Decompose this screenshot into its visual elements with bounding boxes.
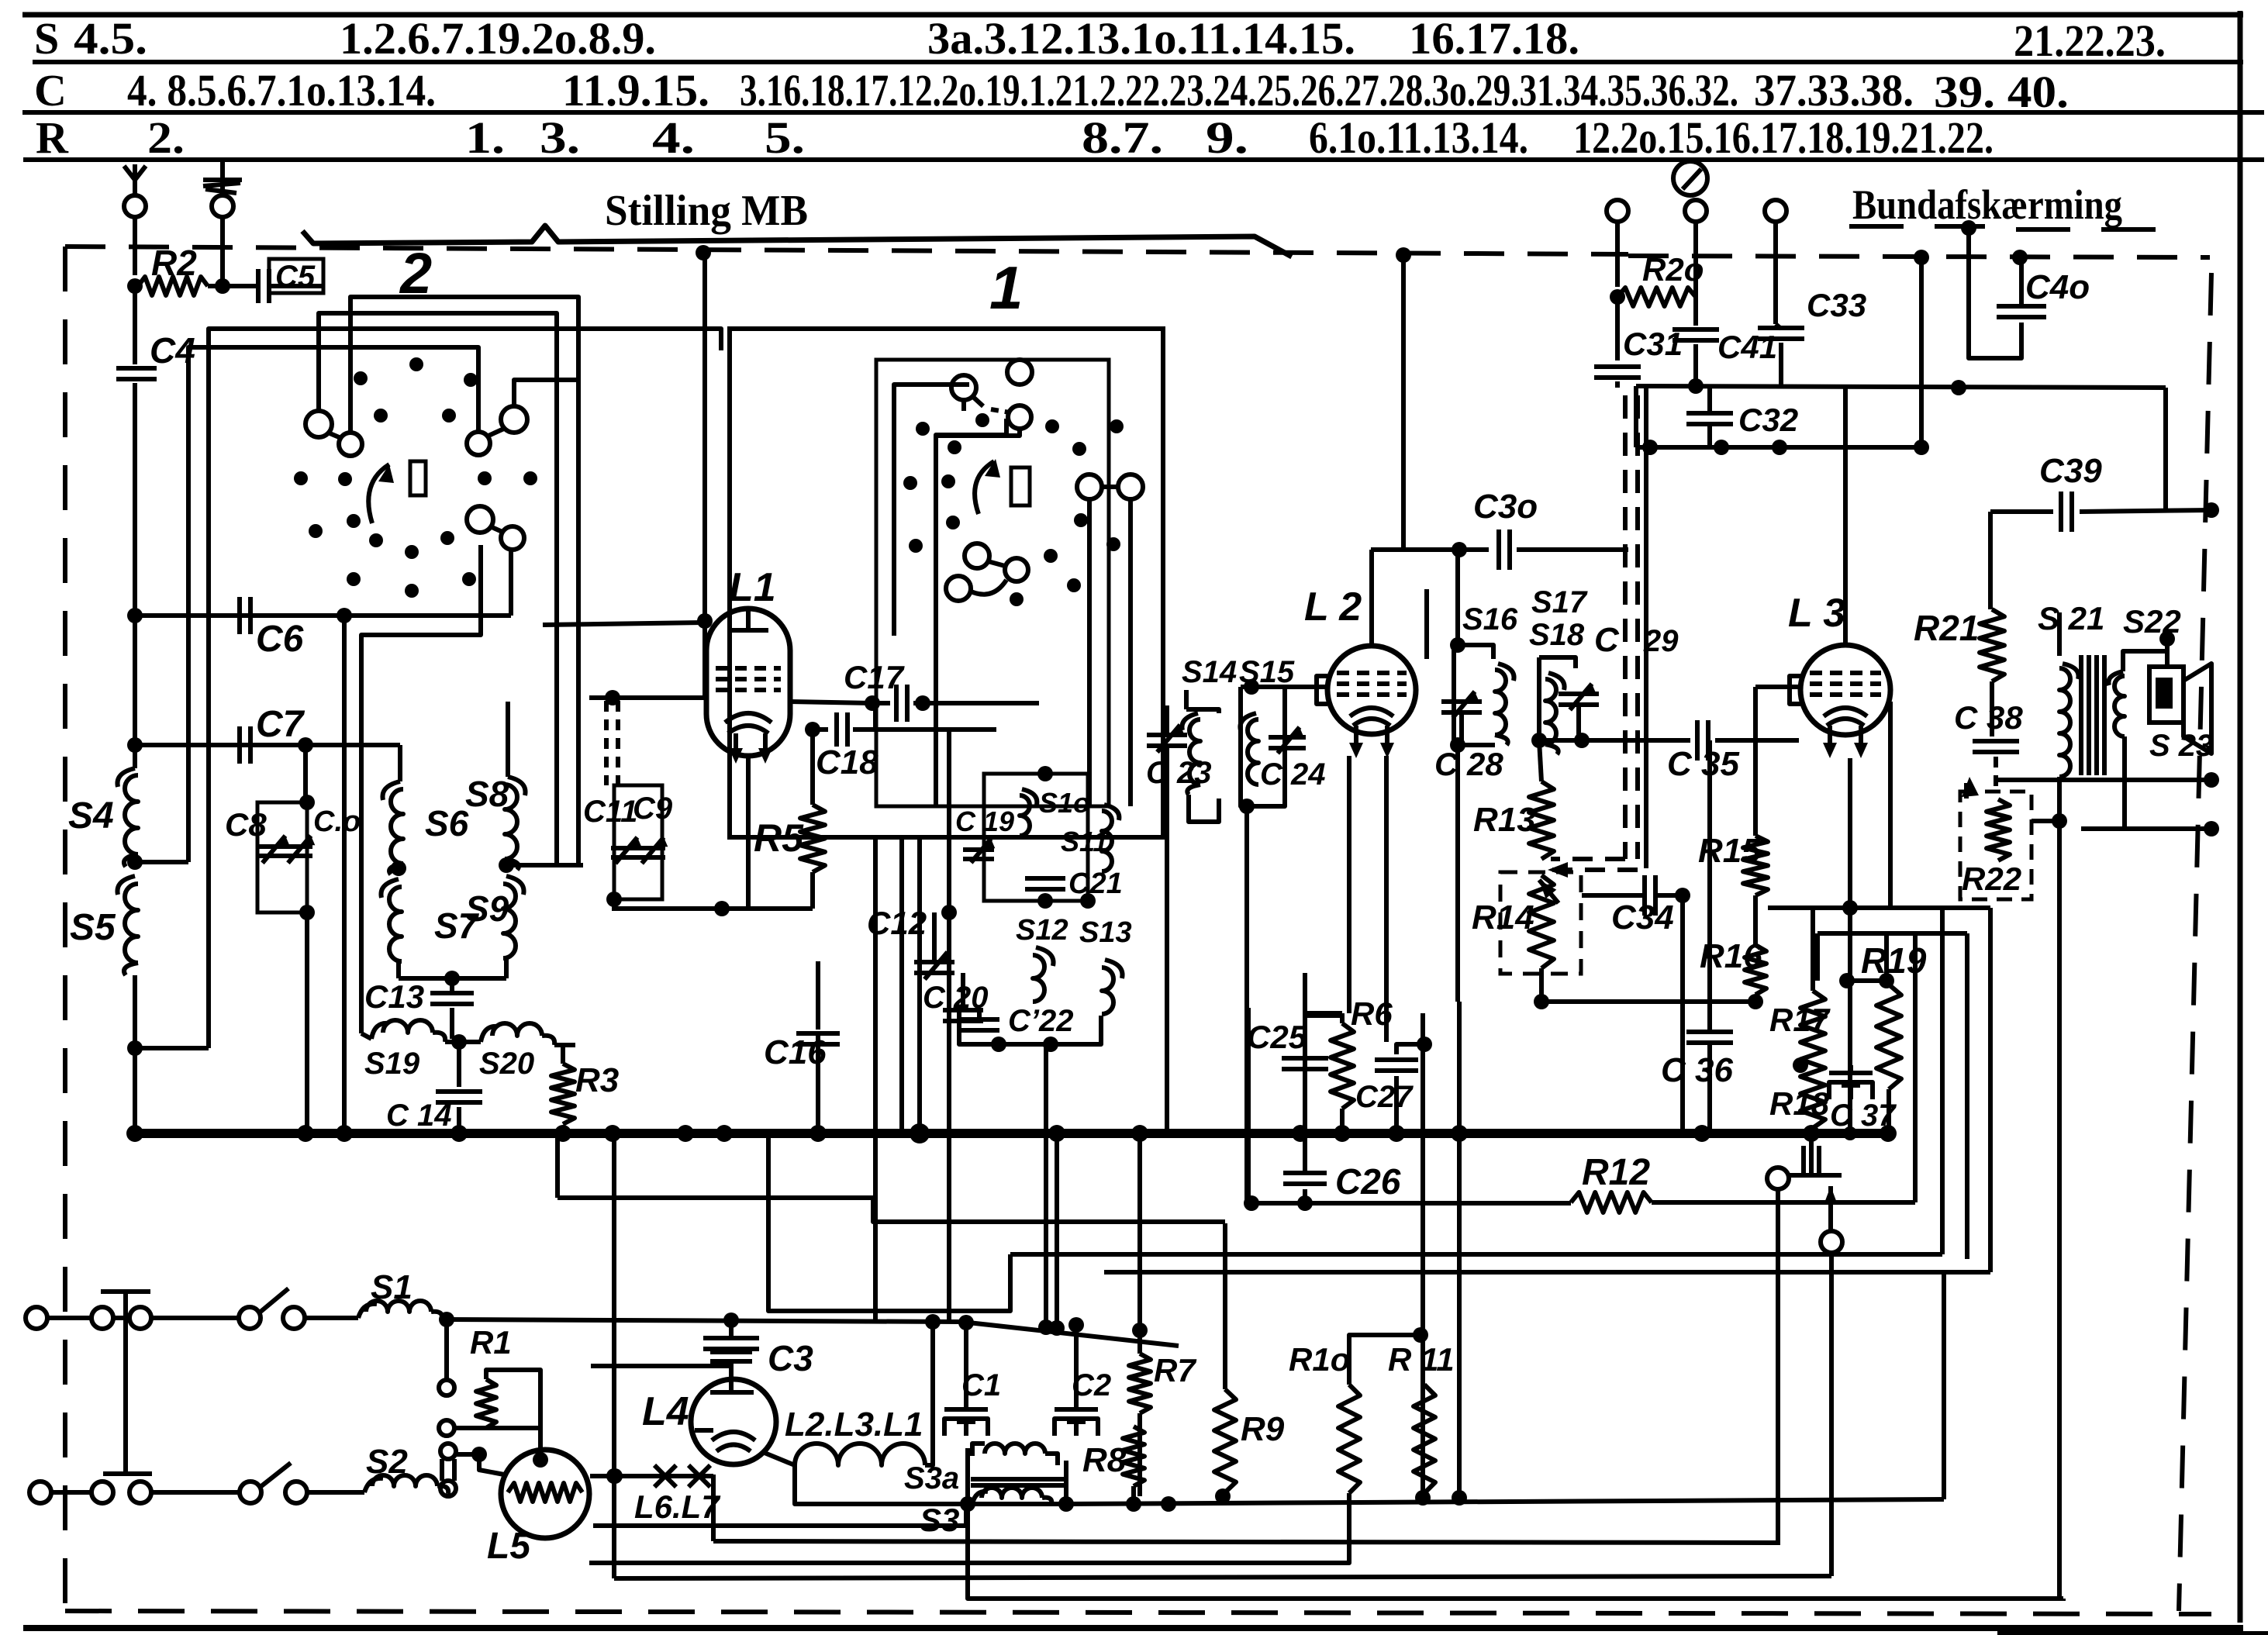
svg-text:2.: 2. xyxy=(147,112,185,163)
svg-text:21.22.23.: 21.22.23. xyxy=(2014,16,2166,66)
svg-text:R17: R17 xyxy=(1769,1002,1831,1038)
svg-text:R8: R8 xyxy=(1082,1441,1127,1479)
svg-text:R3: R3 xyxy=(575,1061,619,1099)
svg-text:L 3: L 3 xyxy=(1788,591,1845,636)
svg-text:R7: R7 xyxy=(1154,1352,1196,1388)
svg-text:C3o: C3o xyxy=(1473,488,1538,526)
svg-text:R 11: R 11 xyxy=(1388,1341,1455,1378)
svg-text:R12: R12 xyxy=(1582,1152,1650,1193)
svg-text:C 24: C 24 xyxy=(1260,757,1326,792)
svg-text:2: 2 xyxy=(399,241,432,305)
svg-text:S5: S5 xyxy=(70,907,116,948)
svg-text:5.: 5. xyxy=(765,112,805,163)
svg-text:R14: R14 xyxy=(1472,899,1534,937)
svg-text:C8: C8 xyxy=(225,806,267,843)
svg-text:R: R xyxy=(36,112,69,163)
svg-text:R9: R9 xyxy=(1241,1410,1285,1448)
svg-text:C 23: C 23 xyxy=(1146,756,1212,790)
svg-text:R18: R18 xyxy=(1769,1085,1830,1122)
svg-text:39. 40.: 39. 40. xyxy=(1934,67,2069,117)
svg-text:R6: R6 xyxy=(1351,995,1393,1032)
svg-text:C 14: C 14 xyxy=(386,1099,452,1133)
svg-text:R2o: R2o xyxy=(1642,251,1704,288)
svg-text:C5: C5 xyxy=(275,260,316,294)
svg-text:S: S xyxy=(34,13,59,64)
svg-text:4.5.: 4.5. xyxy=(74,13,147,64)
svg-text:L 2: L 2 xyxy=(1304,585,1362,630)
svg-text:C.o: C.o xyxy=(313,805,361,838)
svg-text:3a.3.12.13.1o.11.14.15.: 3a.3.12.13.1o.11.14.15. xyxy=(927,13,1355,64)
svg-text:L6.L7: L6.L7 xyxy=(634,1488,720,1525)
svg-text:3.: 3. xyxy=(540,112,580,163)
svg-text:R5: R5 xyxy=(754,816,804,860)
svg-text:S1o: S1o xyxy=(1039,787,1090,819)
svg-text:6.1o.11.13.14.: 6.1o.11.13.14. xyxy=(1309,112,1528,163)
svg-text:S16: S16 xyxy=(1462,602,1518,636)
svg-text:C 36: C 36 xyxy=(1661,1051,1733,1089)
svg-text:C 28: C 28 xyxy=(1434,746,1503,782)
svg-text:C41: C41 xyxy=(1717,329,1777,365)
svg-text:S 23: S 23 xyxy=(2149,729,2213,763)
svg-text:S4: S4 xyxy=(68,795,114,836)
svg-text:8.7.: 8.7. xyxy=(1082,112,1163,163)
svg-text:S17: S17 xyxy=(1531,585,1588,619)
svg-text:C17: C17 xyxy=(844,659,905,695)
svg-text:C: C xyxy=(34,65,67,116)
svg-text:C34: C34 xyxy=(1611,899,1674,937)
svg-text:11.9.15.: 11.9.15. xyxy=(562,65,709,116)
svg-text:Bundafskærming: Bundafskærming xyxy=(1852,181,2122,228)
svg-text:37.33.38.: 37.33.38. xyxy=(1754,65,1914,116)
svg-text:S13: S13 xyxy=(1079,916,1132,949)
svg-text:12.2o.15.16.17.18.19.21.22.: 12.2o.15.16.17.18.19.21.22. xyxy=(1573,112,1994,163)
svg-text:R1o: R1o xyxy=(1289,1341,1350,1378)
svg-text:C32: C32 xyxy=(1738,402,1798,438)
svg-text:16.17.18.: 16.17.18. xyxy=(1409,13,1579,64)
svg-text:S19: S19 xyxy=(364,1047,420,1081)
svg-text:C18: C18 xyxy=(816,743,879,781)
svg-text:C3: C3 xyxy=(768,1338,813,1378)
svg-text:C13: C13 xyxy=(364,978,424,1015)
svg-text:C33: C33 xyxy=(1807,287,1866,323)
svg-text:C39: C39 xyxy=(2039,452,2102,490)
svg-text:C7: C7 xyxy=(256,704,306,745)
svg-text:C9: C9 xyxy=(633,792,673,826)
svg-text:R21: R21 xyxy=(1914,608,1979,648)
svg-text:L1: L1 xyxy=(729,565,776,610)
svg-text:C’22: C’22 xyxy=(1008,1004,1074,1038)
svg-text:C4o: C4o xyxy=(2025,268,2090,306)
svg-text:C 37: C 37 xyxy=(1830,1099,1897,1133)
svg-text:C27: C27 xyxy=(1355,1080,1414,1114)
svg-text:S 21: S 21 xyxy=(2038,600,2104,636)
svg-text:C 38: C 38 xyxy=(1954,699,2023,736)
svg-text:3.16.18.17.12.2o.19.1.21.2.22.: 3.16.18.17.12.2o.19.1.21.2.22.23.24.25.2… xyxy=(740,65,1738,116)
svg-text:1.2.6.7.19.2o.8.9.: 1.2.6.7.19.2o.8.9. xyxy=(340,13,656,64)
svg-text:C26: C26 xyxy=(1335,1161,1401,1202)
svg-text:C: C xyxy=(1594,621,1620,659)
svg-text:C11: C11 xyxy=(583,795,637,829)
svg-text:9.: 9. xyxy=(1206,112,1248,163)
svg-text:S18: S18 xyxy=(1529,618,1585,652)
svg-text:S20: S20 xyxy=(479,1047,534,1081)
svg-text:S12: S12 xyxy=(1016,914,1068,947)
svg-text:C16: C16 xyxy=(764,1033,827,1071)
svg-text:L4: L4 xyxy=(642,1389,689,1434)
svg-text:R1: R1 xyxy=(470,1324,512,1361)
svg-text:C 35: C 35 xyxy=(1667,745,1739,783)
svg-text:C6: C6 xyxy=(256,619,304,660)
svg-text:R22: R22 xyxy=(1962,861,2021,897)
svg-text:4. 8.5.6.7.1o.13.14.: 4. 8.5.6.7.1o.13.14. xyxy=(127,65,436,116)
svg-text:S14: S14 xyxy=(1182,655,1237,689)
svg-text:S6: S6 xyxy=(425,803,469,843)
svg-text:L2.L3.L1: L2.L3.L1 xyxy=(785,1406,923,1444)
svg-text:S8: S8 xyxy=(465,774,509,814)
svg-text:S3a: S3a xyxy=(904,1461,959,1495)
svg-text:C12: C12 xyxy=(867,905,927,941)
svg-text:C 19: C 19 xyxy=(955,805,1014,837)
svg-text:Stilling MB: Stilling MB xyxy=(605,187,808,235)
svg-text:1.: 1. xyxy=(465,112,505,163)
svg-text:C21: C21 xyxy=(1068,868,1123,900)
svg-text:1: 1 xyxy=(989,254,1023,322)
svg-text:R13: R13 xyxy=(1473,801,1536,839)
svg-text:4.: 4. xyxy=(652,112,695,163)
svg-text:C25: C25 xyxy=(1247,1019,1307,1055)
svg-text:S9: S9 xyxy=(465,888,509,929)
svg-text:S3: S3 xyxy=(920,1502,959,1538)
svg-text:29: 29 xyxy=(1643,624,1679,658)
